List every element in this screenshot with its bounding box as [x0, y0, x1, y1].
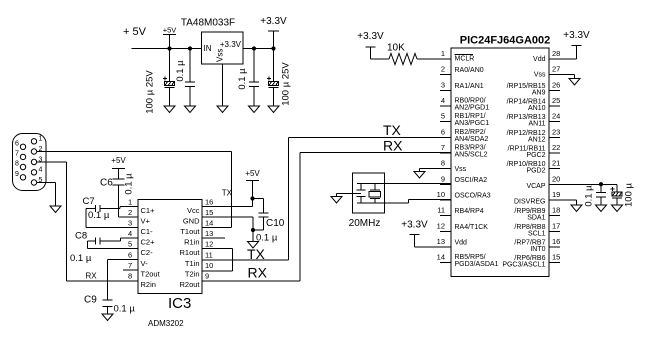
svg-text:21: 21	[552, 159, 560, 168]
svg-text:TA48M033F: TA48M033F	[181, 18, 235, 29]
svg-text:Vss: Vss	[216, 49, 225, 62]
svg-text:10: 10	[437, 190, 445, 199]
svg-text:IN: IN	[204, 44, 212, 53]
svg-text:RA1/AN1: RA1/AN1	[455, 83, 484, 90]
svg-text:C10: C10	[266, 218, 285, 229]
svg-text:Vss: Vss	[455, 166, 467, 173]
svg-text:AN3/PGC1: AN3/PGC1	[455, 120, 490, 127]
svg-text:C8: C8	[75, 231, 87, 242]
svg-text:C6: C6	[100, 178, 113, 189]
svg-text:12: 12	[437, 221, 445, 230]
svg-text:20MHz: 20MHz	[349, 218, 381, 229]
svg-text:Vdd: Vdd	[533, 56, 546, 63]
svg-text:RX: RX	[383, 138, 403, 154]
svg-text:6: 6	[441, 127, 445, 136]
svg-text:7: 7	[15, 150, 19, 157]
svg-text:19: 19	[552, 190, 560, 199]
svg-text:C2-: C2-	[141, 248, 154, 257]
svg-text:R1in: R1in	[184, 238, 199, 247]
svg-text:R2out: R2out	[179, 280, 200, 289]
svg-text:C9: C9	[84, 295, 97, 306]
svg-text:8: 8	[441, 159, 445, 168]
svg-text:10K: 10K	[387, 43, 405, 54]
svg-text:9: 9	[441, 174, 445, 183]
svg-text:15: 15	[552, 253, 560, 262]
svg-text:11: 11	[437, 206, 445, 215]
svg-text:1: 1	[441, 49, 445, 58]
svg-text:13: 13	[205, 229, 213, 238]
svg-text:+3.3V: +3.3V	[563, 30, 590, 41]
svg-text:PIC24FJ64GA002: PIC24FJ64GA002	[460, 35, 551, 47]
svg-text:0.1 µ: 0.1 µ	[70, 253, 92, 264]
svg-text:14: 14	[437, 253, 445, 262]
svg-text:ADM3202: ADM3202	[148, 319, 184, 328]
svg-text:0.1 µ: 0.1 µ	[114, 304, 136, 315]
svg-text:0.1 µ: 0.1 µ	[256, 233, 278, 244]
svg-text:3: 3	[128, 219, 132, 228]
svg-text:13: 13	[437, 237, 445, 246]
svg-text:+3.3V: +3.3V	[260, 16, 287, 27]
svg-text:6: 6	[15, 140, 19, 147]
svg-text:24: 24	[552, 112, 560, 121]
svg-text:C2+: C2+	[141, 238, 156, 247]
svg-text:MCLR: MCLR	[455, 56, 475, 63]
svg-text:16: 16	[205, 198, 213, 207]
svg-text:RX: RX	[248, 265, 268, 281]
svg-text:4: 4	[39, 167, 43, 174]
svg-text:+3.3V: +3.3V	[357, 31, 384, 42]
svg-text:T2in: T2in	[185, 269, 200, 278]
svg-text:0.1 µ: 0.1 µ	[88, 210, 110, 221]
svg-text:+ 5V: + 5V	[123, 26, 147, 38]
svg-text:AN4/SDA2: AN4/SDA2	[455, 136, 489, 143]
svg-text:9: 9	[15, 171, 19, 178]
svg-text:2: 2	[128, 208, 132, 217]
svg-text:20: 20	[552, 174, 560, 183]
svg-text:+5V: +5V	[111, 156, 126, 165]
svg-text:T2out: T2out	[141, 269, 161, 278]
svg-text:18: 18	[552, 206, 560, 215]
svg-text:5: 5	[128, 240, 132, 249]
svg-text:RA4/T1CK: RA4/T1CK	[455, 224, 489, 231]
svg-text:1: 1	[128, 198, 132, 207]
svg-text:3: 3	[441, 80, 445, 89]
svg-text:0.1 µ: 0.1 µ	[584, 185, 595, 207]
svg-text:7: 7	[441, 143, 445, 152]
svg-text:DISVREG: DISVREG	[514, 198, 546, 205]
svg-text:9: 9	[205, 271, 209, 280]
svg-text:27: 27	[552, 65, 560, 74]
svg-text:RB0/RP0/: RB0/RP0/	[455, 97, 486, 104]
svg-text:100 µ: 100 µ	[624, 182, 635, 206]
svg-text:TX: TX	[247, 246, 266, 262]
svg-text:+5V: +5V	[163, 26, 177, 35]
svg-text:2: 2	[441, 65, 445, 74]
svg-text:PGC3/ASCL1: PGC3/ASCL1	[502, 262, 545, 269]
svg-text:INT0: INT0	[530, 246, 545, 253]
svg-text:Vdd: Vdd	[455, 239, 468, 246]
svg-text:AN11: AN11	[529, 121, 546, 128]
svg-text:14: 14	[205, 219, 213, 228]
svg-text:6: 6	[128, 250, 132, 259]
svg-text:15: 15	[205, 208, 213, 217]
svg-text:Vcc: Vcc	[187, 206, 200, 215]
svg-text:RB3/RP3/: RB3/RP3/	[455, 144, 486, 151]
svg-text:26: 26	[552, 80, 560, 89]
svg-text:5: 5	[441, 112, 445, 121]
svg-text:AN9: AN9	[532, 89, 546, 96]
svg-text:+3.3V: +3.3V	[401, 220, 428, 231]
svg-text:SDA1: SDA1	[527, 215, 545, 222]
svg-text:AN10: AN10	[528, 105, 546, 112]
svg-text:TX: TX	[222, 189, 233, 198]
svg-text:12: 12	[205, 240, 213, 249]
svg-text:RA0/AN0: RA0/AN0	[455, 67, 484, 74]
svg-text:100 µ 25V: 100 µ 25V	[145, 70, 156, 114]
svg-text:T1in: T1in	[185, 259, 200, 268]
svg-text:0.1 µ: 0.1 µ	[175, 60, 186, 82]
svg-text:8: 8	[15, 161, 19, 168]
svg-text:R2in: R2in	[141, 280, 156, 289]
svg-text:10: 10	[205, 261, 213, 270]
svg-text:GND: GND	[183, 217, 200, 226]
svg-text:IC3: IC3	[168, 295, 191, 312]
svg-text:OSCI/RA2: OSCI/RA2	[455, 177, 488, 184]
svg-text:RB4/RP4: RB4/RP4	[455, 208, 484, 215]
svg-text:0.1 µ: 0.1 µ	[237, 68, 248, 90]
svg-text:C1-: C1-	[141, 227, 154, 236]
svg-text:RX: RX	[86, 272, 98, 281]
svg-text:0.1 µ: 0.1 µ	[124, 173, 135, 195]
svg-text:TX: TX	[383, 122, 402, 138]
svg-text:+3.3V: +3.3V	[220, 40, 242, 49]
svg-text:RB5/RP5/: RB5/RP5/	[455, 254, 486, 261]
svg-text:4: 4	[128, 229, 132, 238]
svg-text:7: 7	[128, 261, 132, 270]
svg-text:8: 8	[128, 271, 132, 280]
svg-text:AN5/SCL2: AN5/SCL2	[455, 151, 488, 158]
svg-text:AN2/PGD1: AN2/PGD1	[455, 104, 490, 111]
svg-text:RB2/RP2/: RB2/RP2/	[455, 129, 486, 136]
svg-text:1: 1	[39, 136, 43, 143]
svg-text:AN12: AN12	[528, 136, 546, 143]
svg-text:OSCO/RA3: OSCO/RA3	[455, 192, 491, 199]
svg-text:C1+: C1+	[141, 206, 156, 215]
svg-text:+5V: +5V	[245, 169, 260, 178]
svg-text:28: 28	[552, 49, 560, 58]
svg-text:V-: V-	[141, 259, 149, 268]
svg-text:T1out: T1out	[180, 227, 200, 236]
svg-text:R1out: R1out	[179, 248, 200, 257]
svg-text:4: 4	[441, 96, 445, 105]
svg-text:22: 22	[552, 143, 560, 152]
svg-text:SCL1: SCL1	[528, 230, 546, 237]
svg-text:PGC2: PGC2	[526, 152, 545, 159]
svg-text:Vss: Vss	[534, 72, 546, 79]
svg-text:16: 16	[552, 237, 560, 246]
svg-text:17: 17	[552, 221, 560, 230]
svg-text:V+: V+	[141, 217, 151, 226]
svg-text:100 µ 25V: 100 µ 25V	[281, 62, 292, 106]
svg-text:11: 11	[205, 250, 213, 259]
svg-text:PGD3/ASDA1: PGD3/ASDA1	[455, 261, 499, 268]
svg-text:25: 25	[552, 96, 560, 105]
svg-text:PGD2: PGD2	[526, 168, 545, 175]
svg-text:VCAP: VCAP	[526, 183, 545, 190]
svg-text:C7: C7	[83, 196, 95, 207]
svg-text:23: 23	[552, 127, 560, 136]
svg-text:RB1/RP1/: RB1/RP1/	[455, 113, 486, 120]
